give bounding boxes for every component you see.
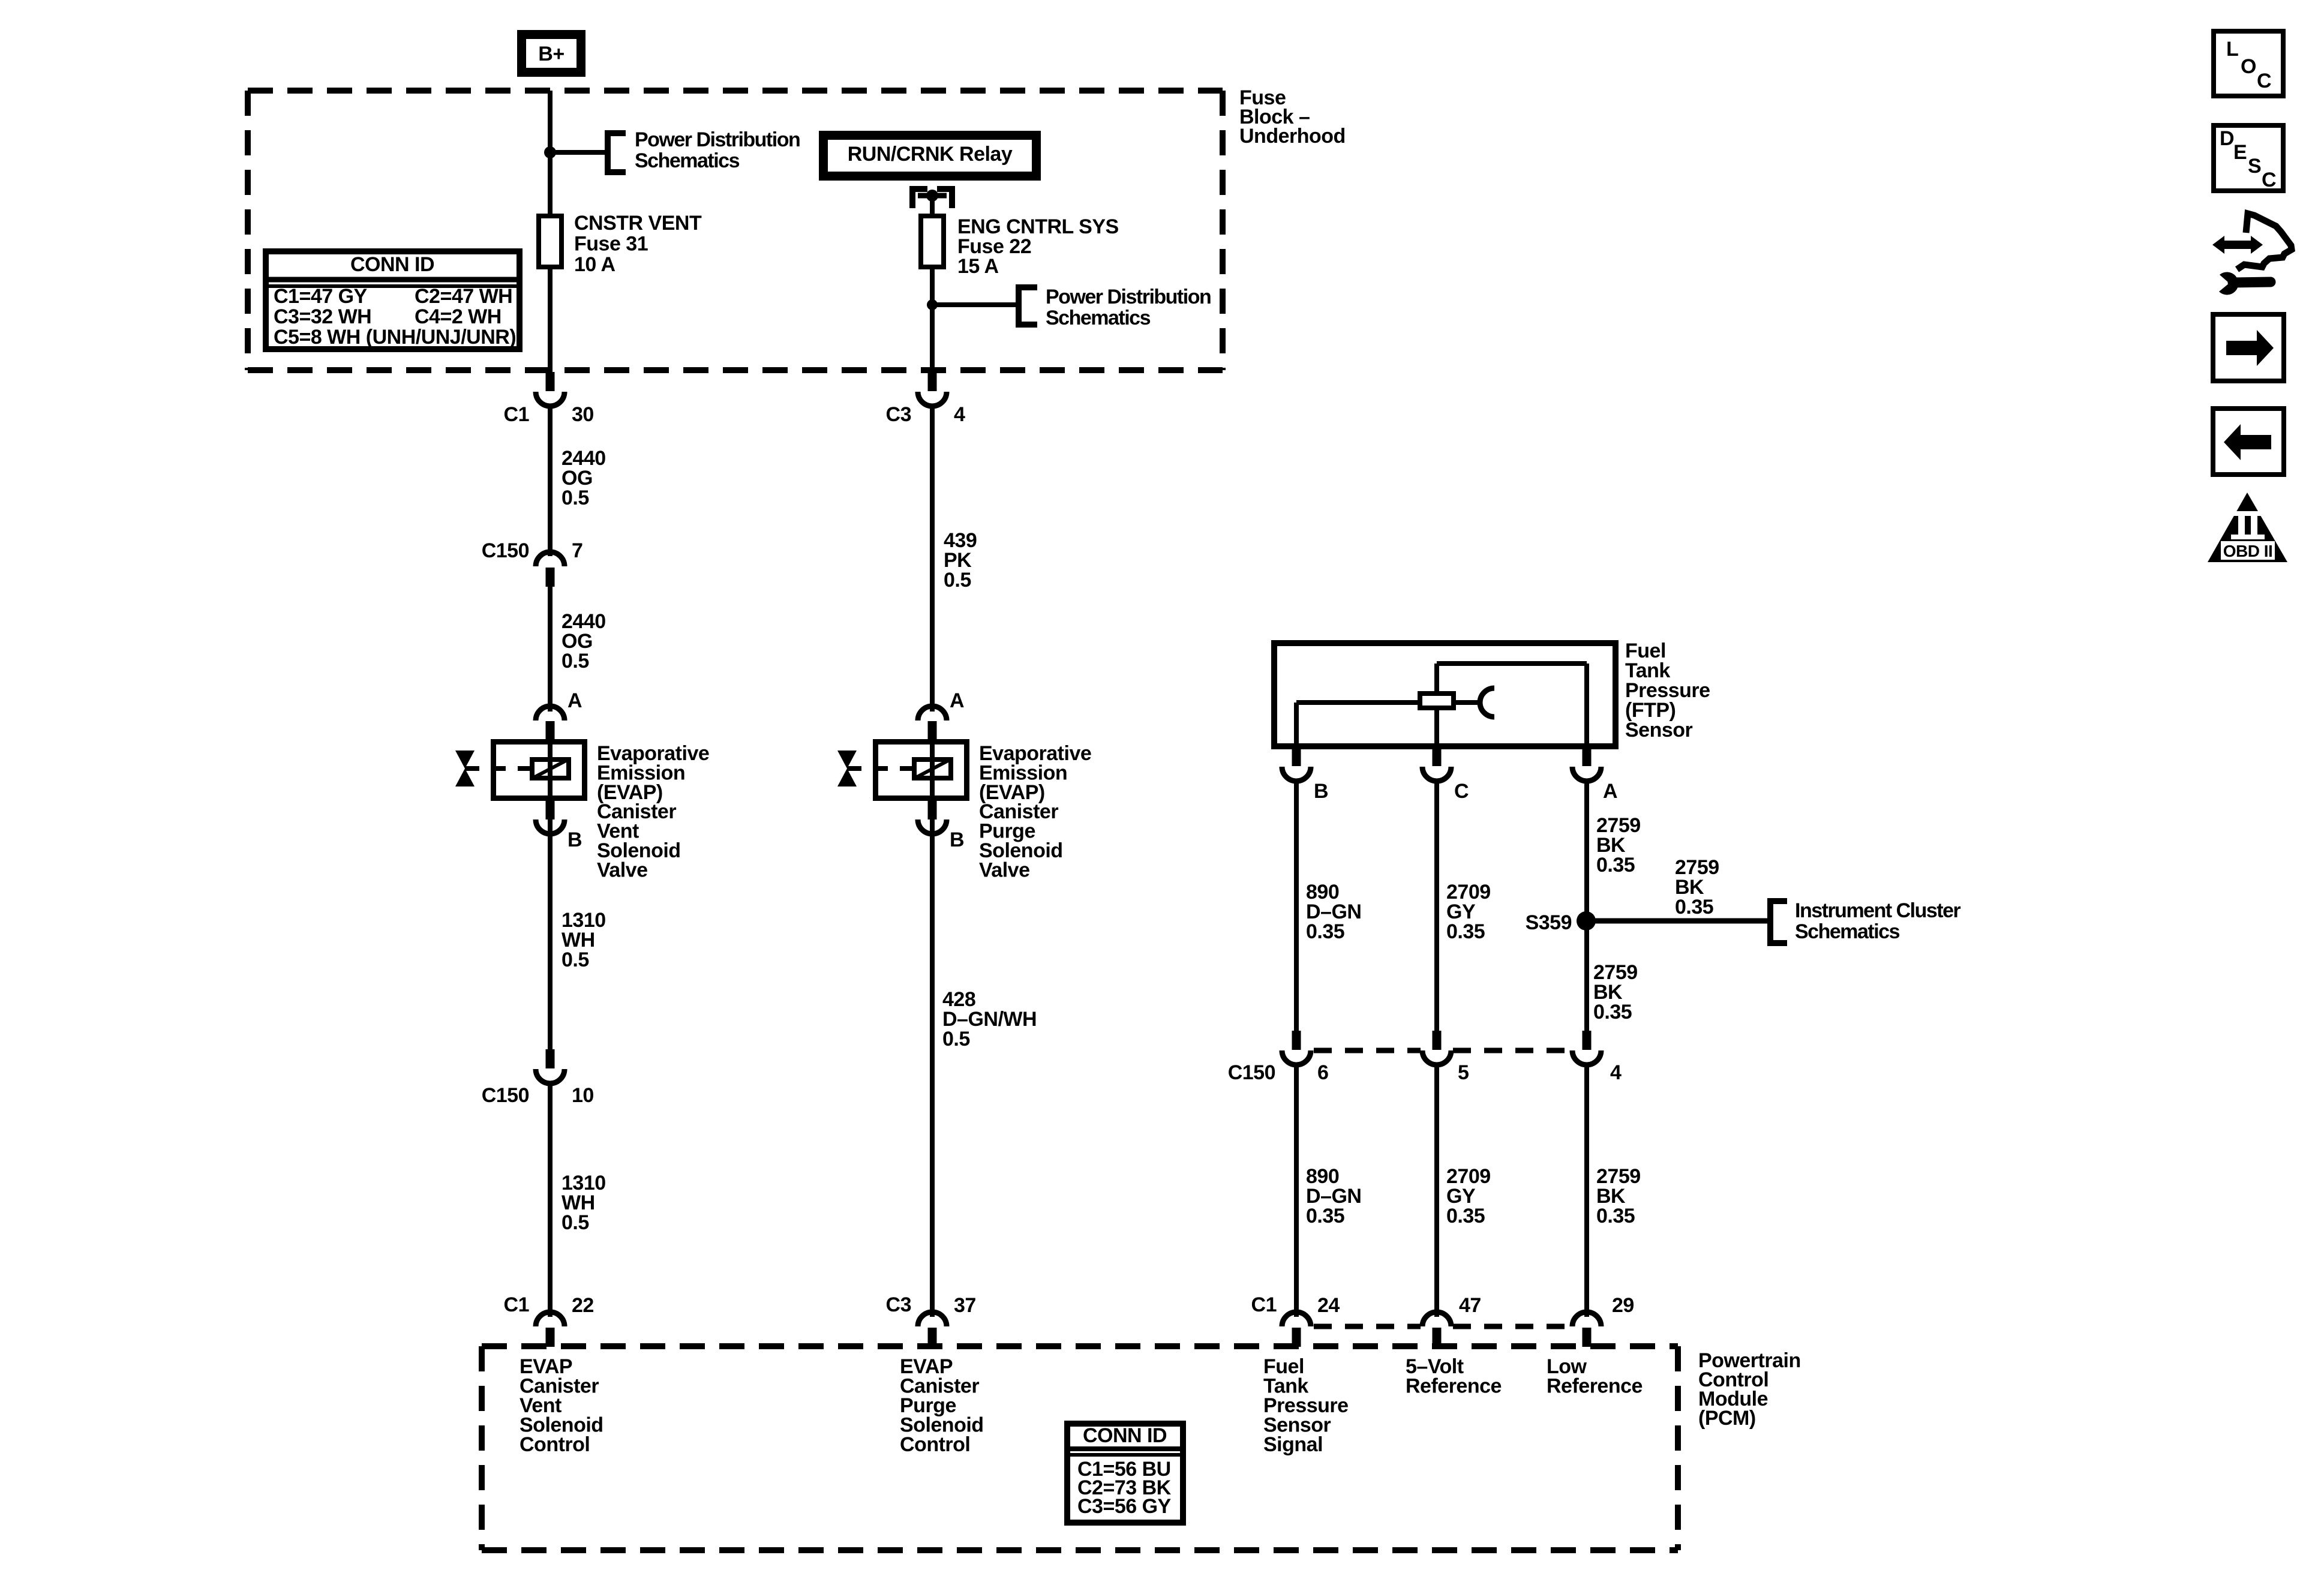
svg-text:47: 47 — [1459, 1294, 1481, 1317]
svg-text:Power Distribution: Power Distribution — [635, 128, 800, 151]
svg-text:37: 37 — [954, 1294, 976, 1317]
svg-text:0.5: 0.5 — [562, 487, 589, 509]
FTP internal wire C — [1434, 710, 1439, 746]
svg-text:CONN ID: CONN ID — [350, 253, 434, 276]
svg-text:0.35: 0.35 — [1596, 854, 1635, 876]
svg-text:C3: C3 — [886, 1293, 911, 1316]
forward arrow — [2226, 330, 2274, 366]
wire 439 PK 0.5: C3/4 to EVAP purge valve pin A — [930, 405, 935, 712]
connector C150 pin 6 cup — [1282, 1050, 1311, 1065]
pin A connector arch (vent valve) — [536, 706, 565, 721]
svg-text:B: B — [950, 828, 964, 851]
wire 2759 BK 0.35: S359 to instrument cluster — [1587, 918, 1770, 924]
connector C1 pin 22 stub into PCM — [546, 1328, 555, 1347]
wire 2709 GY 0.35: C150/5 to PCM 47 — [1434, 1064, 1439, 1317]
fuse CNSTR VENT Fuse 31 10 A — [539, 216, 562, 267]
svg-text:30: 30 — [572, 403, 594, 426]
CONN ID table (fuse block) — [266, 251, 520, 349]
svg-text:B: B — [568, 828, 582, 851]
bracket: Instrument Cluster Schematics reference — [1770, 901, 1787, 943]
wire: branch to power distribution reference — [550, 150, 608, 155]
svg-text:A: A — [1603, 780, 1617, 803]
FTP internal wiper lead — [1456, 700, 1480, 705]
FTP internal resistor — [1420, 694, 1454, 708]
relay output terminal bar — [918, 193, 947, 199]
FTP pin A cup — [1572, 767, 1601, 781]
svg-text:B: B — [1314, 780, 1328, 803]
dashed connector line C150 row — [1314, 1048, 1421, 1053]
LOC icon box — [2214, 31, 2283, 96]
FTP pin A stub — [1583, 746, 1592, 766]
connector C150 pin 7 arch — [536, 552, 565, 566]
svg-text:C: C — [1454, 780, 1469, 803]
connector C150 pin 10 stub — [546, 1049, 555, 1068]
splice S359 — [1577, 911, 1596, 930]
connector C150 pin 7 stub — [546, 568, 555, 587]
vehicle outline icon — [2237, 214, 2292, 269]
FTP internal sensing element (crescent) — [1480, 688, 1494, 717]
Powertrain Control Module dashed box — [482, 1343, 1678, 1349]
svg-text:Reference: Reference — [1406, 1375, 1502, 1398]
double arrow through vehicle — [2212, 236, 2263, 254]
svg-text:C3=32 WH: C3=32 WH — [274, 305, 371, 328]
connector C150 pin 10 cup — [536, 1069, 565, 1083]
FTP pin C stub — [1433, 746, 1442, 766]
svg-text:0.35: 0.35 — [1306, 1205, 1344, 1227]
Fuel Tank Pressure (FTP) Sensor box — [1274, 643, 1616, 746]
svg-text:10: 10 — [572, 1084, 594, 1107]
PCM connector pin 29 stub — [1583, 1328, 1592, 1347]
svg-text:C: C — [2262, 169, 2276, 191]
svg-text:O: O — [2241, 55, 2256, 78]
EVAP solenoid valve body — [494, 742, 585, 798]
FTP pin C cup — [1422, 767, 1451, 781]
svg-text:C3=56 GY: C3=56 GY — [1077, 1495, 1172, 1518]
Fuse Block - Underhood dashed box — [248, 88, 1223, 94]
connector C3 pin 37 arch — [918, 1312, 947, 1326]
svg-text:C150: C150 — [482, 1084, 529, 1107]
svg-text:0.5: 0.5 — [562, 1211, 589, 1234]
svg-text:10 A: 10 A — [574, 253, 615, 276]
wire below pin B — [930, 819, 935, 834]
relay output node — [926, 190, 938, 202]
svg-text:L: L — [2226, 38, 2238, 61]
svg-text:Valve: Valve — [979, 858, 1029, 881]
DESC icon box — [2214, 125, 2283, 191]
svg-text:4: 4 — [954, 403, 965, 426]
svg-text:0.5: 0.5 — [562, 650, 589, 673]
dashed connector line PCM row — [1314, 1324, 1421, 1329]
pin B stub below valve — [546, 801, 555, 819]
svg-text:CONN ID: CONN ID — [1083, 1424, 1167, 1447]
svg-text:A: A — [568, 689, 582, 712]
svg-text:Underhood: Underhood — [1239, 125, 1346, 148]
svg-text:B+: B+ — [538, 43, 564, 65]
svg-text:0.5: 0.5 — [562, 948, 589, 971]
FTP internal wire B — [1294, 703, 1299, 746]
pin B stub below valve — [928, 801, 937, 819]
svg-text:Fuse 31: Fuse 31 — [574, 233, 648, 256]
svg-text:Signal: Signal — [1263, 1433, 1323, 1456]
pin B connector cup — [918, 819, 947, 834]
svg-text:C1: C1 — [1251, 1293, 1277, 1316]
wire 1310 WH 0.5: valve B to C150/10 — [548, 834, 553, 1049]
svg-text:Power Distribution: Power Distribution — [1046, 286, 1211, 308]
wire 890 D-GN 0.35: C150/6 to PCM C1/24 — [1294, 1064, 1299, 1317]
wire 2440 OG 0.5: C150/7 to EVAP vent valve pin A — [548, 587, 553, 712]
svg-text:C1: C1 — [504, 403, 529, 426]
svg-text:C1=47 GY: C1=47 GY — [274, 285, 368, 308]
OBD II triangle icon — [2208, 493, 2287, 562]
FTP internal wire A — [1584, 664, 1589, 746]
wire through valve — [548, 742, 553, 798]
connector C1 pin 30 cup — [536, 392, 565, 406]
svg-text:0.5: 0.5 — [944, 569, 971, 592]
wire: B+ feed down to fuse 31 — [548, 91, 553, 214]
wire: connector A stub into valve — [546, 721, 555, 742]
svg-text:0.35: 0.35 — [1446, 920, 1485, 943]
svg-text:5: 5 — [1458, 1061, 1469, 1084]
connector C150 pin 5 stub — [1433, 1031, 1442, 1050]
svg-text:RUN/CRNK Relay: RUN/CRNK Relay — [848, 143, 1013, 166]
wire 1310 WH 0.5: C150/10 to PCM C1/22 — [548, 1082, 553, 1317]
connector C3 pin 37 stub into PCM — [928, 1328, 937, 1347]
connector C150 pin 5 cup — [1422, 1050, 1451, 1065]
PCM connector pin 47 stub — [1433, 1328, 1442, 1347]
dashed actuator link — [847, 766, 912, 771]
svg-text:S: S — [2248, 155, 2261, 178]
wire below pin B — [548, 819, 553, 834]
svg-text:0.35: 0.35 — [1306, 920, 1344, 943]
svg-text:C5=8 WH (UNH/UNJ/UNR): C5=8 WH (UNH/UNJ/UNR) — [274, 326, 516, 349]
wire 2440 OG 0.5: C1/30 to C150/7 — [548, 405, 553, 556]
svg-text:D: D — [2220, 127, 2234, 150]
PCM connector pin 29 arch — [1572, 1312, 1601, 1326]
svg-text:(PCM): (PCM) — [1698, 1407, 1756, 1430]
pin B connector cup — [536, 819, 565, 834]
svg-text:29: 29 — [1612, 1294, 1634, 1317]
connector C3 pin 4 stub — [928, 372, 937, 391]
svg-text:Schematics: Schematics — [1795, 920, 1900, 943]
OBD II banner — [2221, 541, 2275, 560]
svg-text:0.35: 0.35 — [1675, 896, 1713, 918]
wire: fuse 31 to connector C1/30 — [548, 269, 553, 373]
wire: relay to fuse 22 — [930, 196, 935, 214]
PCM connector pin 47 arch — [1422, 1312, 1451, 1326]
svg-text:0.5: 0.5 — [942, 1028, 970, 1050]
svg-text:C4=2 WH: C4=2 WH — [415, 305, 502, 328]
junction node below fuse 22 — [927, 299, 938, 310]
FTP internal top link — [1437, 661, 1587, 666]
connector C150 pin 6 stub — [1292, 1031, 1301, 1050]
svg-text:Schematics: Schematics — [635, 149, 740, 172]
svg-text:Valve: Valve — [597, 858, 647, 881]
svg-text:0.35: 0.35 — [1596, 1205, 1635, 1227]
svg-text:Control: Control — [520, 1433, 590, 1456]
FTP pin B stub — [1292, 746, 1301, 766]
svg-text:22: 22 — [572, 1294, 594, 1317]
svg-text:6: 6 — [1317, 1061, 1328, 1084]
svg-text:Reference: Reference — [1547, 1375, 1643, 1398]
dashed actuator link — [465, 766, 530, 771]
wire: connector A stub into valve — [928, 721, 937, 742]
svg-text:15 A: 15 A — [957, 255, 999, 278]
svg-text:OBD II: OBD II — [2223, 542, 2273, 560]
svg-text:C2=47 WH: C2=47 WH — [415, 285, 512, 308]
svg-text:A: A — [950, 689, 964, 712]
svg-text:CNSTR VENT: CNSTR VENT — [574, 212, 702, 235]
back arrow icon box — [2213, 409, 2284, 475]
svg-text:E: E — [2233, 141, 2247, 164]
B+ power terminal box — [522, 35, 581, 73]
fuse ENG CNTRL SYS Fuse 22 15 A — [921, 216, 944, 267]
svg-text:Sensor: Sensor — [1625, 719, 1693, 742]
connector C1 pin 22 arch — [536, 1312, 565, 1326]
svg-text:0.35: 0.35 — [1593, 1001, 1632, 1023]
pin A connector arch (purge valve) — [918, 706, 947, 721]
wire 890 D-GN 0.35: FTP B to C150/6 — [1294, 780, 1299, 1031]
wire 2759 BK 0.35: FTP A to splice S359 — [1584, 780, 1589, 921]
FTP pin B cup — [1282, 767, 1311, 781]
svg-text:Instrument Cluster: Instrument Cluster — [1795, 899, 1961, 922]
svg-text:Schematics: Schematics — [1046, 307, 1151, 329]
svg-text:C1: C1 — [504, 1293, 529, 1316]
wire: fuse 22 down to connector C3/4 — [930, 269, 935, 373]
bracket: Power Distribution Schematics reference (right) — [1019, 287, 1037, 325]
solenoid coil element — [914, 760, 951, 778]
svg-text:24: 24 — [1317, 1294, 1340, 1317]
wire 2759 BK 0.35: C150/4 to PCM 29 — [1584, 1064, 1589, 1317]
connector C3 pin 4 cup — [918, 392, 947, 406]
svg-text:C3: C3 — [886, 403, 911, 426]
valve actuator (hourglass) — [455, 751, 475, 769]
relay output terminal brackets — [912, 189, 927, 208]
CONN ID table (PCM) — [1067, 1424, 1183, 1523]
connector C150 pin 4 stub — [1583, 1031, 1592, 1050]
junction node on B+ feed — [544, 146, 556, 158]
PCM connector pin 24 stub — [1292, 1328, 1301, 1347]
svg-text:C150: C150 — [1228, 1061, 1275, 1084]
wire 428 D-GN/WH 0.5: valve B to PCM C3/37 — [930, 834, 935, 1317]
back arrow — [2224, 424, 2271, 460]
valve actuator (hourglass) — [837, 751, 857, 769]
bracket: Power Distribution Schematics reference (upper) — [608, 133, 626, 172]
svg-text:7: 7 — [572, 539, 582, 562]
forward arrow icon box — [2213, 314, 2284, 381]
svg-text:S359: S359 — [1526, 911, 1572, 934]
EVAP solenoid valve body — [876, 742, 967, 798]
RUN/CRNK Relay box — [824, 136, 1037, 176]
svg-text:0.35: 0.35 — [1446, 1205, 1485, 1227]
solenoid coil element — [532, 760, 569, 778]
wire: branch to power distribution reference (right) — [932, 302, 1019, 307]
OBD II pillar symbol — [2231, 511, 2265, 516]
connector C1 pin 30 stub — [546, 372, 555, 391]
wrench icon — [2233, 282, 2271, 283]
wire 2709 GY 0.35: FTP C to C150/5 — [1434, 780, 1439, 1031]
svg-text:Control: Control — [900, 1433, 970, 1456]
svg-text:C150: C150 — [482, 539, 529, 562]
PCM connector pin 24 arch — [1282, 1312, 1311, 1326]
svg-text:C: C — [2257, 70, 2271, 92]
connector C150 pin 4 cup — [1572, 1050, 1601, 1065]
wire 2759 BK 0.35: S359 to C150/4 — [1584, 921, 1589, 1031]
wire through valve — [930, 742, 935, 798]
svg-text:4: 4 — [1610, 1061, 1622, 1084]
